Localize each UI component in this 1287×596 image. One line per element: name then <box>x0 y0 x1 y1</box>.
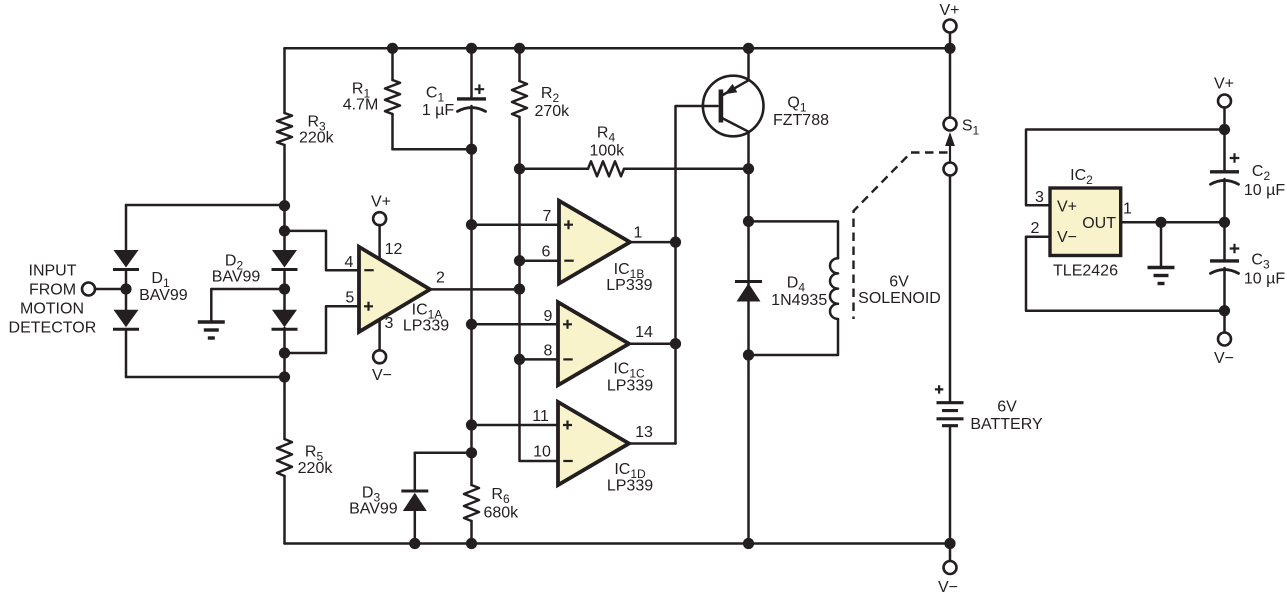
wire IC1C output pin 14 <box>629 324 676 344</box>
wire Q1 emitter to top rail <box>747 48 750 80</box>
wire pin 7 to IC1B <box>472 208 560 225</box>
svg-text:11: 11 <box>532 408 549 425</box>
junction top rail at R2 <box>514 43 525 54</box>
junction OUT at ground branch <box>1155 217 1166 228</box>
svg-text:DETECTOR: DETECTOR <box>9 320 97 337</box>
junction bottom rail at D3 <box>409 538 420 549</box>
resistor R5 220k <box>277 328 333 544</box>
node V- pin 3 of IC1A <box>372 315 394 384</box>
junction top rail at Q1 emitter <box>743 43 754 54</box>
svg-text:4: 4 <box>345 254 354 271</box>
junction D1 top wire at R3 column <box>279 200 290 211</box>
solenoid coil 6V SOLENOID <box>749 221 941 355</box>
svg-text:3: 3 <box>385 315 394 332</box>
wire input terminal to D1 midpoint <box>95 283 132 294</box>
op-amp IC1A LP339 <box>359 247 449 335</box>
wire inverting bus from R2/R4 node down (x=519.5) <box>520 169 559 461</box>
wire V+ terminal to top rail <box>949 33 952 49</box>
svg-text:S1: S1 <box>962 117 980 137</box>
diode D2 BAV99 (dual series, anode top) <box>212 250 298 329</box>
junction R2 bottom / R4 node <box>514 163 525 174</box>
diode D4 1N4935 (cathode up, flyback) <box>735 275 827 310</box>
junction bus at pin 8 <box>514 354 525 365</box>
svg-text:FROM: FROM <box>29 282 76 299</box>
junction bus at D3 branch <box>466 447 477 458</box>
junction bottom rail at Q1 collector branch <box>743 538 754 549</box>
svg-text:BATTERY: BATTERY <box>970 416 1043 433</box>
svg-text:6V: 6V <box>889 274 909 291</box>
svg-text:V−: V− <box>1214 350 1234 367</box>
svg-text:1N4935: 1N4935 <box>771 292 827 309</box>
svg-text:10 µF: 10 µF <box>1244 270 1285 287</box>
svg-text:V−: V− <box>938 579 958 596</box>
svg-text:220k: 220k <box>299 130 335 147</box>
svg-text:R2: R2 <box>541 85 560 105</box>
junction bottom rail at battery <box>944 538 955 549</box>
wire pin 8 to IC1C <box>520 343 559 360</box>
junction bus at pin 9 <box>466 319 477 330</box>
svg-text:680k: 680k <box>483 505 519 522</box>
pin label 4 <box>345 254 354 271</box>
battery 6V <box>935 176 1043 544</box>
svg-text:V−: V− <box>372 367 392 384</box>
pin label 5 <box>345 290 354 307</box>
svg-text:220k: 220k <box>298 460 334 477</box>
junction collector line at D4/solenoid bottom <box>743 349 754 360</box>
svg-text:V+: V+ <box>371 193 391 210</box>
svg-text:3: 3 <box>1035 189 1044 206</box>
svg-text:C2: C2 <box>1252 163 1271 183</box>
junction top rail at V+ terminal <box>944 43 955 54</box>
wire pin 10 to IC1D (from inverting bus elbow) <box>533 444 551 461</box>
svg-text:LP339: LP339 <box>403 318 449 335</box>
svg-text:5: 5 <box>345 290 354 307</box>
svg-text:INPUT: INPUT <box>29 263 77 280</box>
transistor Q1 FZT788 (PNP) <box>703 76 829 137</box>
svg-text:10 µF: 10 µF <box>1244 182 1285 199</box>
wire Q1 collector down to bottom rail <box>747 132 750 544</box>
resistor R1 4.7M <box>343 48 472 149</box>
svg-text:R4: R4 <box>597 125 616 145</box>
capacitor C1 1uF (polarized) <box>422 48 486 149</box>
wire bottom V- rail <box>285 542 951 545</box>
capacitor C3 10uF <box>1210 222 1285 310</box>
junction top rail at C1 <box>466 43 477 54</box>
wire IC2 pin 2 to bottom rail <box>1026 237 1225 311</box>
svg-text:6V: 6V <box>997 399 1017 416</box>
node V- supply terminal bottom <box>938 544 958 596</box>
svg-text:2: 2 <box>436 270 445 287</box>
svg-text:V+: V+ <box>939 2 959 19</box>
junction D2 bottom node (pin5 branch) <box>279 347 290 358</box>
node V+ supply terminal top <box>939 2 959 32</box>
junction collector line at D4/solenoid top <box>743 216 754 227</box>
diode D1 BAV99 (dual series, anode top) <box>113 205 285 377</box>
svg-text:LP339: LP339 <box>607 378 653 395</box>
svg-text:1 µF: 1 µF <box>422 102 455 119</box>
svg-text:9: 9 <box>544 308 553 325</box>
svg-text:V+: V+ <box>1214 76 1234 93</box>
junction D1 bottom wire at R5 column <box>279 371 290 382</box>
pin label 3 of IC2 <box>1035 189 1044 206</box>
wire pin 6 to IC1B <box>520 244 560 261</box>
junction R3 bottom / pin4 branch <box>279 225 290 236</box>
svg-text:MOTION: MOTION <box>20 301 84 318</box>
svg-text:14: 14 <box>635 324 653 341</box>
svg-text:6: 6 <box>542 244 551 261</box>
svg-text:V−: V− <box>1057 229 1077 246</box>
junction D2 midpoint <box>279 283 290 294</box>
svg-text:R6: R6 <box>491 486 510 506</box>
svg-text:8: 8 <box>544 343 553 360</box>
op-amp IC1D LP339 <box>558 402 653 495</box>
ground symbol at IC2 output <box>1148 268 1175 284</box>
junction bus at pin 11 <box>466 419 477 430</box>
junction IC1C output at output bus <box>670 338 681 349</box>
svg-text:C3: C3 <box>1251 252 1270 272</box>
diode D3 BAV99 (cathode up) <box>349 453 471 544</box>
op-amp IC1B LP339 <box>559 201 653 295</box>
junction bottom rail at R6 <box>466 538 477 549</box>
resistor R3 220k <box>277 48 335 250</box>
junction bus at pin 6 <box>514 255 525 266</box>
wire pin 11 to IC1D <box>472 408 559 425</box>
capacitor C2 10uF <box>1210 130 1285 223</box>
svg-text:270k: 270k <box>534 103 570 120</box>
wire OUT node to ground <box>1160 222 1163 266</box>
svg-text:100k: 100k <box>589 143 625 160</box>
resistor R2 270k <box>512 48 570 169</box>
junction IC1A output at inverting bus <box>514 284 525 295</box>
svg-text:TLE2426: TLE2426 <box>1053 262 1118 279</box>
wire IC1B output pin 1 <box>630 225 676 243</box>
ground symbol at D2 <box>198 322 225 338</box>
wire pin 9 to IC1C <box>472 308 559 325</box>
wire IC1A output pin 2 <box>430 270 520 290</box>
junction IC2 top rail at C2 <box>1219 124 1230 135</box>
svg-text:V+: V+ <box>1057 198 1077 215</box>
wire comparator output bus up to Q1 base <box>676 106 718 443</box>
junction OUT at C2/C3 midpoint <box>1219 217 1230 228</box>
svg-text:IC2: IC2 <box>1070 167 1093 187</box>
resistor R6 680k <box>464 485 519 544</box>
switch S1 <box>944 48 980 175</box>
wire IC2 top rail <box>1026 130 1225 206</box>
node INPUT FROM MOTION DETECTOR terminal <box>9 263 97 337</box>
svg-text:10: 10 <box>533 444 551 461</box>
junction IC1B output at output bus <box>670 237 681 248</box>
svg-text:BAV99: BAV99 <box>212 269 261 286</box>
junction collector line at R4 <box>743 163 754 174</box>
svg-text:4.7M: 4.7M <box>343 97 379 114</box>
svg-text:1: 1 <box>634 225 643 242</box>
svg-text:FZT788: FZT788 <box>773 112 829 129</box>
svg-text:13: 13 <box>635 424 653 441</box>
node V- terminal of IC2 section <box>1214 311 1234 367</box>
node V+ pin 12 of IC1A <box>371 193 403 259</box>
svg-text:12: 12 <box>385 241 403 258</box>
dashed mechanical linkage solenoid to S1 <box>854 153 948 320</box>
svg-text:2: 2 <box>1031 220 1040 237</box>
junction bus at pin 7 <box>466 219 477 230</box>
junction top rail at R1 <box>387 43 398 54</box>
wire IC2 OUT pin 1 <box>1121 201 1225 223</box>
wire pin 4 from R3 node to IC1A inverting input <box>285 231 360 270</box>
svg-text:BAV99: BAV99 <box>139 287 188 304</box>
IC U2 TLE2426 rail splitter <box>1050 167 1121 280</box>
node V+ terminal of IC2 section <box>1214 76 1234 130</box>
wire non-inverting reference bus (x=471.5) <box>470 149 473 485</box>
junction R1/C1 bottom node <box>466 144 477 155</box>
wire pin 5 from D2 bottom node to IC1A non-inverting input <box>285 306 360 353</box>
wire top V+ rail <box>285 47 951 50</box>
svg-text:OUT: OUT <box>1082 215 1116 232</box>
junction IC2 bottom rail at C3 <box>1219 305 1230 316</box>
svg-text:LP339: LP339 <box>606 277 652 294</box>
svg-text:SOLENOID: SOLENOID <box>858 290 941 307</box>
wire IC1D output pin 13 <box>629 424 676 443</box>
svg-text:1: 1 <box>1123 201 1132 218</box>
svg-text:7: 7 <box>543 208 552 225</box>
pin label 2 of IC2 <box>1031 220 1040 237</box>
wire D2 midpoint to ground <box>211 289 284 321</box>
svg-text:LP339: LP339 <box>607 478 653 495</box>
op-amp IC1C LP339 <box>558 302 653 394</box>
resistor R4 100k <box>520 125 749 177</box>
svg-text:BAV99: BAV99 <box>349 501 398 518</box>
